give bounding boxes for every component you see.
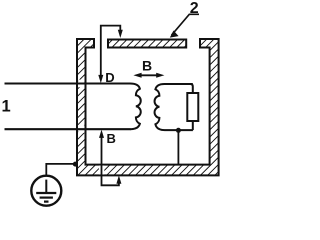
junction node on shield corner	[73, 162, 78, 167]
white channel where wire 2 crosses left wall	[78, 125, 84, 133]
svg-text:D: D	[105, 70, 114, 85]
svg-text:B: B	[142, 58, 152, 74]
flux path B arrowhead toward wire 2	[99, 130, 104, 138]
transformer secondary winding	[155, 84, 193, 130]
flux path D arrowhead onto top wall	[118, 30, 123, 38]
earth ground symbol stem	[45, 180, 47, 193]
wire: earth lead from shield corner to ground electrode	[46, 164, 75, 176]
ground electrode circle	[31, 176, 61, 206]
flux arrow B double-headed between windings	[139, 74, 160, 76]
earth ground symbol bar long	[36, 192, 56, 194]
wire: resistor bottom lead	[192, 121, 194, 130]
transformer primary winding	[130, 84, 141, 130]
wire: secondary earthing lead to shield bottom wall	[177, 130, 179, 165]
flux path D arrowhead onto wire	[98, 75, 103, 83]
svg-text:1: 1	[2, 97, 11, 115]
svg-text:B: B	[107, 131, 116, 146]
earth ground symbol bar middle	[40, 197, 53, 199]
white channel where flux line B crosses bottom wall	[99, 166, 104, 175]
flux path B polyline (left)	[102, 136, 119, 185]
earth ground symbol bar short	[44, 201, 49, 203]
junction node on secondary bottom	[176, 128, 181, 133]
resistor load	[187, 93, 198, 121]
wire: secondary top lead to resistor	[190, 84, 193, 93]
shield top wall 2	[108, 40, 186, 48]
flux path D polyline	[101, 26, 121, 77]
flux path B arrowhead toward bottom wall	[116, 175, 121, 183]
white channel where wire 1 crosses left wall	[78, 80, 84, 88]
wire: input line pair 1 (bottom conductor) joining primary winding bottom	[5, 128, 131, 130]
shield enclosure C-piece (left wall with lip, bottom wall, right wall with lip)	[77, 39, 219, 175]
wire: input line pair 1 (top conductor) joining primary winding top	[5, 82, 131, 84]
